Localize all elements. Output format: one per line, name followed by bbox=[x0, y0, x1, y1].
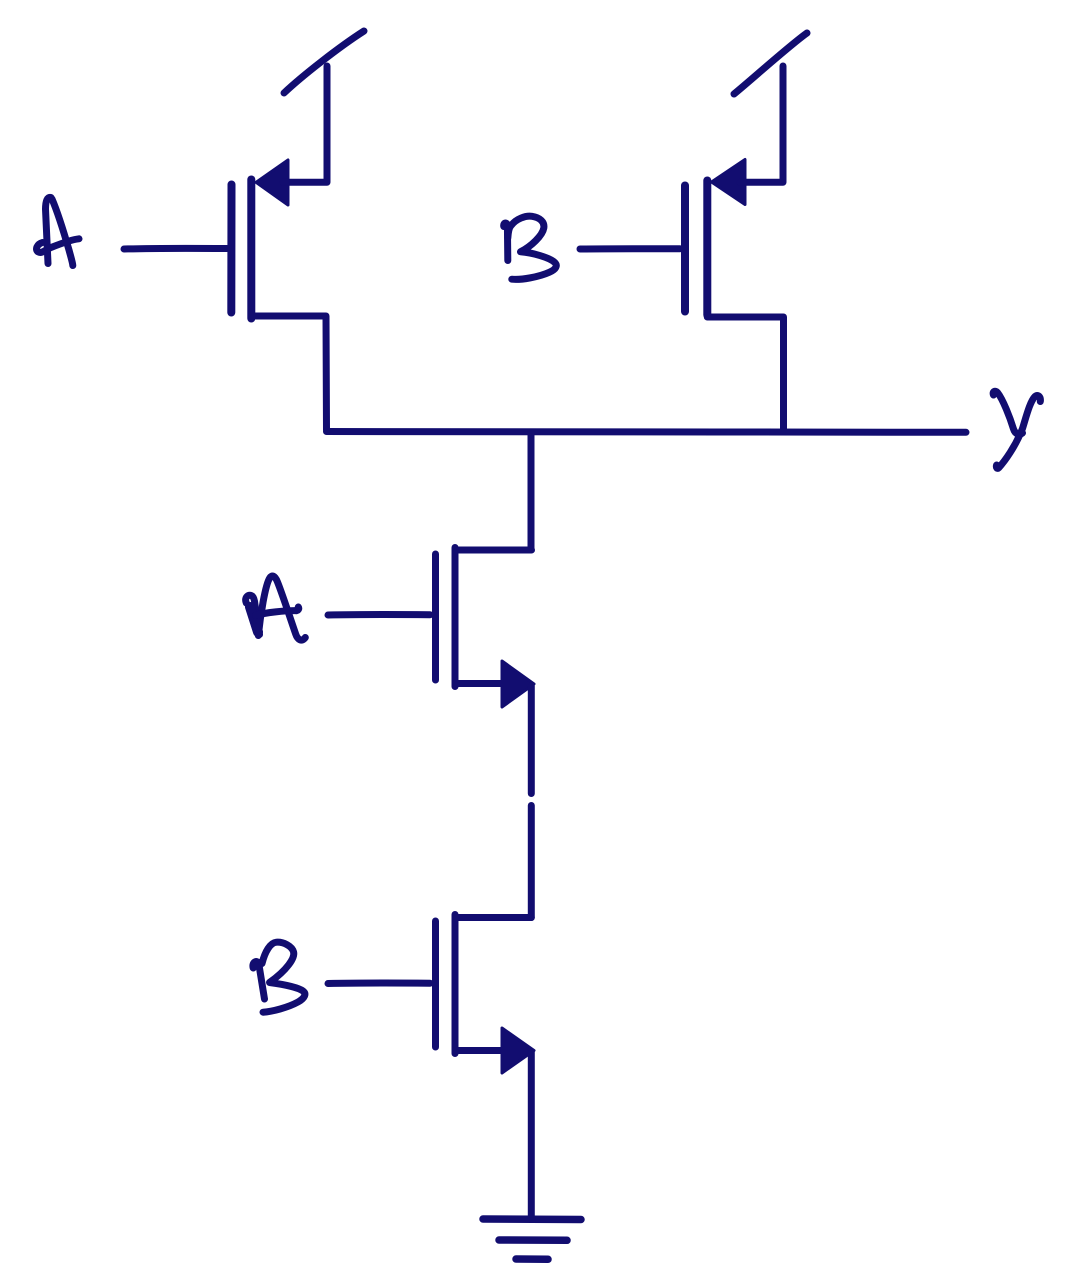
wire: Q3 source down (upper segment, pen lift) bbox=[528, 686, 535, 794]
wire: Q4 source lead bbox=[455, 1047, 504, 1054]
VDD slash symbol (Q1) bbox=[284, 31, 364, 93]
wire: Q1 drain lead down to node Y bbox=[251, 316, 326, 430]
pmos Q2 source arrow bbox=[712, 160, 746, 205]
node label A (input to PMOS Q1) bbox=[37, 197, 79, 265]
wire: Q3 source down (lower segment) to Q4 drain bbox=[528, 806, 535, 918]
wire: gate lead of PMOS Q1 bbox=[124, 245, 227, 253]
wire: Q3 drain lead bbox=[455, 547, 532, 554]
wire: Q2 drain lead down to node Y bbox=[707, 317, 783, 432]
ground symbol: top bar bbox=[483, 1215, 581, 1223]
pmos Q1 gate bar bbox=[227, 185, 235, 313]
wire: node Y down to NMOS Q3 drain bbox=[528, 432, 535, 550]
node label A (input to NMOS Q3) bbox=[246, 576, 306, 640]
wire: gate lead of PMOS Q2 bbox=[580, 245, 680, 252]
wire: Q1 source lead to VDD riser bbox=[283, 66, 327, 182]
ground symbol: middle bar bbox=[499, 1236, 567, 1244]
nmos Q4 channel bar bbox=[452, 915, 459, 1054]
wire: Q4 drain lead bbox=[455, 914, 531, 921]
wire: Q3 source lead bbox=[455, 680, 504, 687]
VDD slash symbol (Q2) bbox=[734, 33, 807, 94]
nmos Q4 source arrow (points out) bbox=[502, 1028, 534, 1073]
nmos Q4 gate bar bbox=[432, 921, 439, 1047]
pmos Q1 source arrow (points into channel) bbox=[256, 160, 288, 205]
node label Y (output) bbox=[993, 391, 1040, 468]
wire: gate lead of NMOS Q3 bbox=[328, 611, 430, 618]
ground symbol: bottom bar bbox=[516, 1255, 548, 1263]
pmos Q1 channel bar bbox=[247, 180, 255, 319]
nmos Q3 channel bar bbox=[452, 548, 459, 687]
pmos Q2 gate bar bbox=[681, 186, 689, 312]
wire: output node Y horizontal rail bbox=[327, 431, 967, 432]
wire: Q4 source down to ground bbox=[528, 1052, 535, 1218]
nmos Q3 source arrow (points out) bbox=[502, 661, 534, 707]
pmos Q2 channel bar bbox=[703, 181, 711, 316]
wire: gate lead of NMOS Q4 bbox=[328, 980, 430, 987]
wire: Q2 source lead to VDD riser bbox=[740, 66, 783, 182]
node label B (input to PMOS Q2) bbox=[504, 216, 557, 279]
nmos Q3 gate bar bbox=[432, 554, 439, 680]
node label B (input to NMOS Q4) bbox=[253, 942, 305, 1012]
